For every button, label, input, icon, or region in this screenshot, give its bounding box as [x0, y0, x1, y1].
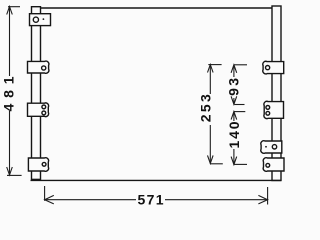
dimension 253 top tick: [208, 64, 221, 66]
svg-text:140: 140: [226, 121, 242, 148]
dimension 93 bottom tick: [235, 104, 245, 106]
dimension 571 left extension line: [44, 186, 46, 201]
dimension 93 top tick: [234, 64, 247, 66]
core bottom edge: [31, 179, 282, 181]
right middle bracket: [261, 141, 282, 154]
svg-text:571: 571: [138, 192, 164, 208]
left top bracket: [30, 14, 51, 26]
dimension 253 line: [208, 65, 214, 164]
left header pipe: [32, 7, 41, 180]
right two-hole bracket: [264, 101, 284, 118]
left middle bracket: [28, 61, 49, 73]
dimension 140 line: [231, 112, 237, 165]
dimension 140 bottom tick: [234, 163, 247, 165]
left pipe bottom stub: [32, 179, 41, 181]
right upper bracket: [263, 61, 284, 74]
dimension 571 line: [45, 195, 268, 204]
dimension 93 line: [231, 65, 237, 105]
dimension 481 line: [7, 7, 13, 176]
dimension 481 bottom tick: [7, 174, 22, 176]
dimension 481 top tick: [8, 6, 20, 8]
dimension 571 right extension line: [267, 187, 269, 205]
right bottom bracket: [263, 158, 284, 172]
dimension 140 top tick: [234, 111, 245, 113]
left two-hole bracket: [28, 103, 49, 117]
right header pipe: [272, 6, 281, 181]
svg-text:253: 253: [198, 94, 214, 122]
left bottom bracket: [28, 158, 48, 172]
svg-text:481: 481: [1, 76, 17, 111]
dimension 253 bottom tick: [210, 163, 223, 165]
core top edge: [41, 7, 273, 9]
